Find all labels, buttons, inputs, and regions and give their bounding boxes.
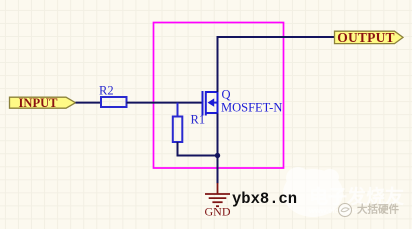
wire R2 to gate: [127, 102, 203, 104]
svg-text:GND: GND: [205, 205, 231, 219]
selection box: [154, 23, 284, 169]
svg-text:R2: R2: [99, 84, 114, 98]
svg-text:大括硬件: 大括硬件: [357, 203, 399, 216]
svg-text:OUTPUT: OUTPUT: [337, 30, 394, 45]
ground GND: [205, 183, 230, 206]
wire INPUT to R2: [76, 102, 102, 104]
wire source down to ground: [217, 114, 219, 184]
resistor R2: [101, 97, 127, 107]
svg-text:INPUT: INPUT: [19, 96, 59, 110]
watermark stamp icon: [339, 204, 352, 217]
wire R1 bottom to junction: [178, 142, 218, 156]
wire drain to output: [218, 37, 335, 92]
port OUTPUT: [335, 30, 404, 45]
svg-text:MOSFET-N: MOSFET-N: [221, 101, 282, 115]
port INPUT: [10, 96, 76, 110]
watermark flame blob: [283, 167, 343, 217]
resistor R1: [173, 117, 183, 143]
svg-text:Q: Q: [222, 88, 231, 102]
transistor Q1 MOSFET-N: [203, 91, 218, 116]
svg-text:ybx8.cn: ybx8.cn: [232, 190, 297, 208]
node junction dot: [215, 153, 220, 158]
wire gate node to R1 top: [177, 103, 179, 117]
